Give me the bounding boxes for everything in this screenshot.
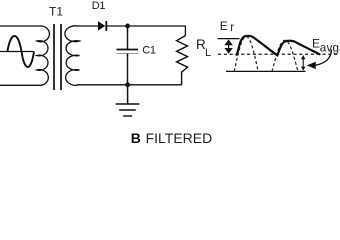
wire ground stub — [127, 85, 129, 104]
Er ripple measure arrow (double headed) — [228, 41, 230, 52]
node junction dot ground — [125, 82, 130, 87]
ground symbol — [116, 103, 140, 105]
svg-text:avg: avg — [320, 42, 339, 55]
AC source sine wave — [7, 36, 34, 67]
svg-text:B: B — [131, 130, 141, 146]
Er peak reference line — [218, 38, 240, 40]
svg-text:r: r — [230, 22, 234, 34]
Eavg curved pointer arrow — [316, 50, 332, 66]
dashed rectified pulse 1 — [234, 37, 258, 72]
wire bottom — [77, 84, 182, 86]
wire secondary top to diode — [77, 25, 99, 27]
Eavg small measure arrow (double headed) — [302, 57, 304, 69]
diode D1 — [98, 21, 105, 30]
wire diode to top-right corner and down — [106, 26, 185, 36]
dashed average level line — [218, 53, 338, 55]
svg-text:FILTERED: FILTERED — [146, 130, 213, 146]
dashed rectified pulse 2 — [272, 40, 298, 71]
svg-text:C1: C1 — [142, 45, 156, 57]
wire primary bottom lead — [0, 84, 41, 86]
wire capacitor top stub — [127, 26, 129, 49]
transformer T1 primary winding — [37, 26, 50, 85]
waveform zero baseline — [226, 70, 306, 72]
AC source sine axis line — [0, 51, 34, 53]
svg-text:L: L — [205, 47, 211, 59]
svg-text:D1: D1 — [92, 0, 106, 12]
svg-text:T1: T1 — [49, 4, 63, 18]
svg-text:E: E — [220, 19, 228, 33]
resistor RL zigzag — [177, 36, 188, 85]
filtered output waveform solid — [237, 36, 320, 56]
wire primary top lead — [0, 25, 41, 27]
transformer core line right — [60, 24, 62, 90]
node junction dot top — [125, 24, 130, 29]
transformer core line left — [53, 24, 55, 90]
capacitor C1 bottom plate — [117, 53, 139, 55]
wire capacitor bottom stub — [127, 54, 129, 85]
capacitor C1 top plate — [117, 49, 139, 51]
transformer T1 secondary winding — [65, 26, 80, 86]
